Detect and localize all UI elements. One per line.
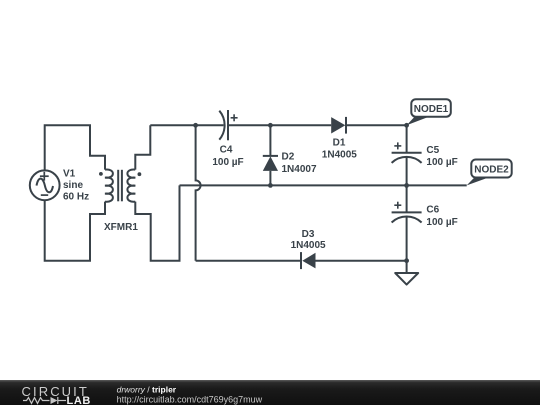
svg-text:NODE2: NODE2: [474, 165, 509, 176]
svg-text:100 µF: 100 µF: [212, 157, 243, 168]
svg-text:V1: V1: [63, 169, 76, 180]
svg-text:D3: D3: [302, 229, 315, 240]
svg-text:C5: C5: [426, 145, 439, 156]
svg-text:1N4007: 1N4007: [282, 164, 317, 175]
svg-text:D2: D2: [282, 152, 295, 163]
svg-text:sine: sine: [63, 180, 83, 191]
junction dots: [193, 123, 409, 263]
wire bottom rail right segment: [316, 260, 407, 262]
capacitor C4: [219, 110, 237, 140]
footer CircuitLab logo: [22, 384, 91, 405]
diode D2: [263, 125, 278, 185]
svg-text:D1: D1: [333, 138, 346, 149]
capacitor C5: [392, 125, 422, 185]
svg-text:1N4005: 1N4005: [322, 150, 357, 161]
node NODE1 flag: [407, 99, 451, 125]
wire middle rail: [180, 184, 467, 186]
label D2 value: [282, 152, 317, 176]
wire top rail left segment: [150, 124, 223, 126]
svg-text:C6: C6: [426, 205, 439, 216]
voltage source V1: [30, 170, 60, 200]
wire top rail middle segment: [228, 124, 331, 126]
wire primary top loop: [45, 125, 105, 170]
wire primary bottom loop: [45, 200, 105, 261]
svg-text:1N4005: 1N4005: [291, 240, 326, 251]
transformer phase dots: [99, 172, 141, 176]
diode D3: [301, 252, 316, 269]
svg-text:100 µF: 100 µF: [426, 157, 457, 168]
svg-text:60 Hz: 60 Hz: [63, 192, 89, 203]
wire vertical with hop: [196, 125, 201, 260]
svg-text:C4: C4: [220, 144, 233, 155]
label D3 value: [291, 229, 326, 251]
wire bottom rail left segment: [196, 260, 301, 262]
label C6 value: [426, 205, 457, 228]
label D1 value: [322, 138, 357, 161]
footer bar: [0, 380, 540, 405]
svg-text:XFMR1: XFMR1: [104, 222, 138, 233]
svg-text:NODE1: NODE1: [414, 104, 449, 115]
node NODE2 flag: [467, 160, 512, 186]
wire secondary top to top rail: [135, 125, 150, 169]
diode D1: [331, 117, 346, 134]
wire secondary bottom to middle rail: [135, 185, 179, 260]
svg-text:LAB: LAB: [67, 395, 91, 405]
svg-text:100 µF: 100 µF: [426, 217, 457, 228]
label V1 value: [63, 169, 89, 203]
svg-text:http://circuitlab.com/cdt769y6: http://circuitlab.com/cdt769y6g7muw: [117, 394, 263, 404]
label C5 value: [426, 145, 457, 168]
svg-text:drworry / tripler: drworry / tripler: [117, 384, 177, 394]
capacitor C6: [392, 185, 422, 260]
transformer XFMR1: [105, 169, 135, 201]
wire top rail right segment: [346, 124, 407, 126]
footer credit text: [117, 384, 263, 404]
label C4 value: [212, 144, 243, 168]
ground: [395, 261, 418, 285]
